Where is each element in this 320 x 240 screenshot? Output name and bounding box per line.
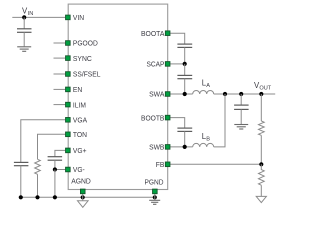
svg-text:TON: TON (73, 130, 87, 139)
ground signal triangle (FB divider) (256, 196, 266, 202)
node LB riser junction (223, 92, 227, 96)
node output cap junction (239, 92, 243, 96)
wire AGND rail (21, 196, 155, 198)
wire FB (170, 163, 261, 165)
label LB (202, 132, 210, 143)
svg-text:VIN: VIN (73, 13, 84, 22)
node SWA junction (183, 92, 187, 96)
svg-text:SCAP: SCAP (147, 60, 165, 69)
pin SS/FSEL (66, 72, 71, 77)
wire VG- (55, 169, 65, 171)
wire SCAP (170, 63, 185, 65)
wire stub SYNC (54, 57, 66, 59)
svg-text:VG-: VG- (73, 165, 85, 174)
svg-text:AGND: AGND (71, 176, 91, 185)
node SCAP junction (183, 62, 187, 66)
pin VG- (66, 167, 71, 172)
capacitor BOOTB-SWB (177, 128, 192, 147)
capacitor BOOTA-SCAP (177, 44, 192, 64)
pin BOOTB (165, 115, 170, 120)
resistor TON (to AGND rail) (35, 159, 41, 197)
node VOUT junction (259, 92, 263, 96)
resistor feedback lower R2 (259, 164, 265, 196)
pin SWA (165, 92, 170, 97)
label LA (202, 78, 210, 89)
wire PGND pin drop (154, 193, 156, 200)
svg-text:IN: IN (28, 11, 34, 17)
pin SYNC (66, 56, 71, 61)
svg-text:BOOTB: BOOTB (141, 113, 164, 122)
ground earth (input cap) (17, 47, 31, 52)
node rail left (19, 195, 23, 199)
wire VG+ branch (55, 150, 65, 156)
pin PGND (153, 189, 158, 194)
svg-text:PGND: PGND (145, 178, 164, 187)
svg-text:SS/FSEL: SS/FSEL (73, 70, 101, 79)
svg-text:EN: EN (73, 85, 82, 94)
pin EN (66, 87, 71, 92)
wire BOOTA to cap (170, 33, 185, 44)
ground earth (output cap) (234, 125, 248, 130)
pin SWB (165, 145, 170, 150)
IC U1 body (68, 4, 168, 189)
wire BOOTB to cap (170, 118, 185, 128)
svg-text:VG+: VG+ (73, 146, 87, 155)
svg-text:B: B (206, 136, 210, 142)
pin SCAP (165, 62, 170, 67)
svg-text:ILIM: ILIM (73, 100, 86, 109)
svg-text:OUT: OUT (259, 85, 271, 91)
net label VOUT (254, 81, 272, 91)
wire TON branch (38, 134, 66, 159)
wire stub SS/FSEL (54, 73, 66, 75)
ground signal triangle (AGND) (78, 201, 89, 208)
pin BOOTA (165, 31, 170, 36)
node VG- junction (53, 167, 57, 171)
net label VIN (22, 6, 33, 16)
wire stub PGOOD (54, 42, 66, 44)
wire LA to VOUT (214, 93, 276, 95)
svg-text:VGA: VGA (73, 116, 88, 125)
wire VIN input (12, 16, 65, 18)
resistor feedback upper R1 (259, 94, 265, 164)
svg-text:FB: FB (156, 160, 165, 169)
capacitor input (VIN to GND) (17, 17, 32, 46)
pin PGOOD (66, 41, 71, 46)
wire SWB (170, 146, 193, 148)
node rail VG- (53, 195, 57, 199)
svg-text:SWB: SWB (149, 143, 164, 152)
svg-text:SWA: SWA (149, 90, 165, 99)
wire SWA output line (170, 93, 193, 95)
wire LB riser (214, 94, 225, 147)
pin ILIM (66, 102, 71, 107)
node rail AGND (81, 195, 85, 199)
node rail TON (35, 195, 39, 199)
pin VG+ (66, 148, 71, 153)
svg-text:PGOOD: PGOOD (73, 39, 98, 48)
pin TON (66, 132, 71, 137)
node FB junction (259, 162, 263, 166)
pin FB (165, 162, 170, 167)
pin AGND (80, 189, 85, 194)
ground earth (PGND) (149, 200, 160, 204)
wire stub EN (54, 88, 66, 90)
wire stub ILIM (54, 104, 66, 106)
node rail PGND (153, 195, 157, 199)
node VIN junction (22, 15, 26, 19)
svg-text:A: A (206, 83, 210, 89)
svg-text:SYNC: SYNC (73, 54, 92, 63)
inductor LA (193, 91, 214, 95)
capacitor VG+ to VG- (48, 157, 63, 170)
inductor LB (193, 143, 214, 147)
wire VGA branch (21, 120, 66, 162)
pin VIN (66, 15, 71, 20)
pin VGA (66, 118, 71, 123)
svg-text:BOOTA: BOOTA (141, 29, 165, 38)
capacitor SCAP-SWA (177, 64, 192, 94)
node SWB junction (183, 145, 187, 149)
wire AGND pin drop (82, 193, 84, 201)
capacitor output (VOUT to GND) (234, 94, 249, 124)
capacitor VGA (to AGND rail) (14, 162, 29, 197)
wire VG- down to rail (54, 170, 56, 198)
